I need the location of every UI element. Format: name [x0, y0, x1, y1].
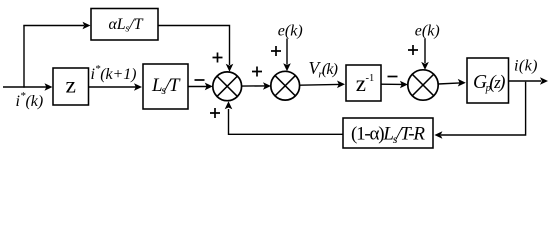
summing junction J1 — [213, 72, 242, 101]
block alpha Ls/T — [91, 9, 158, 41]
svg-text:i(k): i(k) — [514, 58, 538, 75]
arrowhead into junction1 top — [226, 64, 234, 72]
svg-text:Vr(k): Vr(k) — [309, 58, 339, 81]
wire junction1 to junction2 — [242, 85, 265, 87]
arrowhead into junction2 top — [283, 63, 291, 71]
svg-text:-1: -1 — [366, 73, 375, 84]
arrowhead into alpha block — [83, 22, 91, 30]
wire e(k) first arrow vertical — [286, 39, 288, 65]
arrowhead into z block — [45, 83, 53, 91]
svg-text:i*(k): i*(k) — [16, 90, 44, 110]
svg-text:αLs/T: αLs/T — [109, 16, 144, 35]
sign plus bottom of J1 — [210, 108, 220, 118]
summing junction J3 — [408, 70, 438, 100]
arrowhead output — [540, 77, 548, 85]
block z — [53, 68, 89, 105]
wire input — [3, 86, 47, 88]
wire z to LsT — [89, 86, 137, 88]
wire output — [509, 80, 542, 82]
svg-text:z: z — [356, 71, 366, 96]
arrowhead into junction3 left — [400, 81, 408, 89]
wire branch vertical up — [23, 26, 25, 88]
block Ls/T — [143, 64, 188, 109]
wire e(k) second arrow vertical — [424, 39, 426, 64]
svg-text:Gp(z): Gp(z) — [473, 72, 506, 94]
wire output down branch — [441, 82, 526, 135]
block z^-1 — [346, 65, 381, 101]
svg-text:e(k): e(k) — [415, 23, 440, 40]
wire junction3 to Gp block — [438, 83, 460, 84]
svg-text:e(k): e(k) — [278, 23, 303, 40]
block Gp(z) — [467, 58, 509, 103]
wire junction2 to z-1 block — [300, 83, 339, 86]
arrowhead into junction1 left — [205, 83, 213, 91]
sign plus beside e(k) arrow 2 — [408, 45, 418, 55]
sign plus beside e(k) arrow 1 — [271, 46, 281, 56]
arrowhead into Gp block — [458, 79, 466, 87]
svg-text:(1-α)Ls/T-R: (1-α)Ls/T-R — [351, 124, 425, 146]
arrowhead into LsT block — [134, 83, 142, 91]
wire z-1 to junction3 — [381, 83, 402, 85]
arrowhead into junction2 left — [263, 82, 271, 90]
svg-text:i*(k+1): i*(k+1) — [91, 63, 137, 83]
sign minus left of J3 — [388, 76, 398, 78]
wire alpha block to down corner — [158, 26, 230, 66]
wire LsT to junction1 — [188, 86, 207, 88]
wire top horizontal to alpha block — [23, 25, 84, 27]
arrowhead into junction3 top — [421, 62, 429, 70]
sign minus left of J1 — [195, 79, 205, 81]
sign plus left of J2 — [252, 67, 262, 77]
summing junction J2 — [271, 71, 300, 100]
svg-text:Ls/T: Ls/T — [151, 75, 181, 97]
arrowhead into z-1 block — [337, 81, 345, 89]
wire feedback left segment — [229, 109, 344, 134]
arrowhead into feedback block — [434, 131, 442, 139]
block feedback (1-alpha)Ls/T-R — [343, 118, 433, 148]
arrowhead into junction1 bottom — [225, 101, 233, 109]
sign plus top of J1 — [213, 53, 223, 63]
svg-text:z: z — [66, 73, 76, 99]
